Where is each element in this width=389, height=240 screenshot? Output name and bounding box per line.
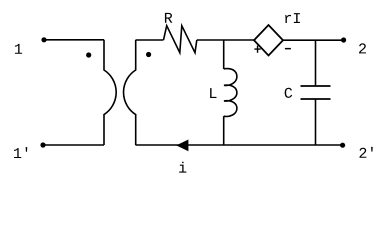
terminal dot node 2' [340, 143, 345, 148]
wire bottom-left from terminal 1' to transformer primary [43, 144, 104, 146]
wire top from secondary to resistor [136, 39, 164, 41]
dependent source label rI [285, 13, 300, 23]
capacitor C top plate [301, 85, 331, 87]
wire from diamond to terminal 2 [283, 39, 344, 41]
transformer primary polarity dot [86, 52, 91, 57]
resistor R zigzag [164, 26, 197, 53]
terminal dot node 1' [40, 142, 45, 147]
inductor L coil [224, 69, 237, 117]
inductor L top lead [223, 40, 225, 69]
node 2 label [359, 43, 366, 53]
transformer primary winding [104, 40, 116, 145]
capacitor C bottom lead [315, 99, 317, 145]
node 1' label [14, 147, 27, 158]
capacitor C bottom plate [301, 98, 331, 100]
transformer secondary winding [124, 40, 136, 145]
capacitor C label [285, 88, 293, 98]
capacitor C top lead [315, 40, 317, 86]
dependent source diamond rI [254, 25, 283, 56]
terminal dot node 2 [341, 37, 346, 42]
inductor L label [210, 88, 216, 98]
wire from resistor to node above L [197, 39, 254, 41]
terminal dot node 1 [41, 37, 46, 42]
current label i [179, 162, 186, 173]
plus sign of dependent source [254, 46, 260, 53]
transformer secondary polarity dot [146, 52, 151, 57]
inductor L bottom lead [223, 116, 225, 145]
node 1 label [15, 44, 22, 54]
wire top-left from terminal 1 to transformer primary [44, 39, 104, 41]
node 2' label [359, 147, 372, 158]
resistor R label [165, 13, 172, 23]
bottom wire from secondary to terminal 2' [136, 144, 343, 146]
minus sign of dependent source [285, 48, 291, 50]
current arrow i on bottom wire [176, 140, 188, 152]
